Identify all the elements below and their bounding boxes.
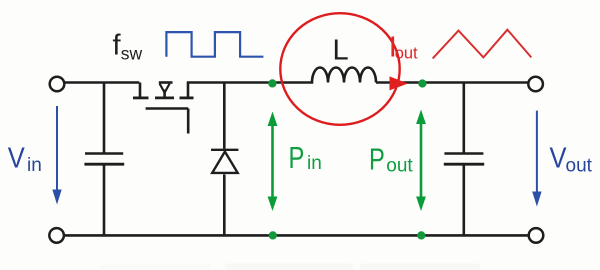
svg-text:P: P xyxy=(289,141,305,175)
svg-text:in: in xyxy=(27,155,42,176)
svg-text:P: P xyxy=(369,143,385,177)
svg-text:sw: sw xyxy=(121,43,143,63)
svg-text:in: in xyxy=(307,153,322,174)
svg-text:out: out xyxy=(386,156,413,177)
svg-text:V: V xyxy=(550,143,568,175)
svg-text:out: out xyxy=(566,156,593,177)
svg-text:V: V xyxy=(8,142,26,174)
svg-text:L: L xyxy=(333,35,349,67)
svg-text:out: out xyxy=(395,45,418,63)
